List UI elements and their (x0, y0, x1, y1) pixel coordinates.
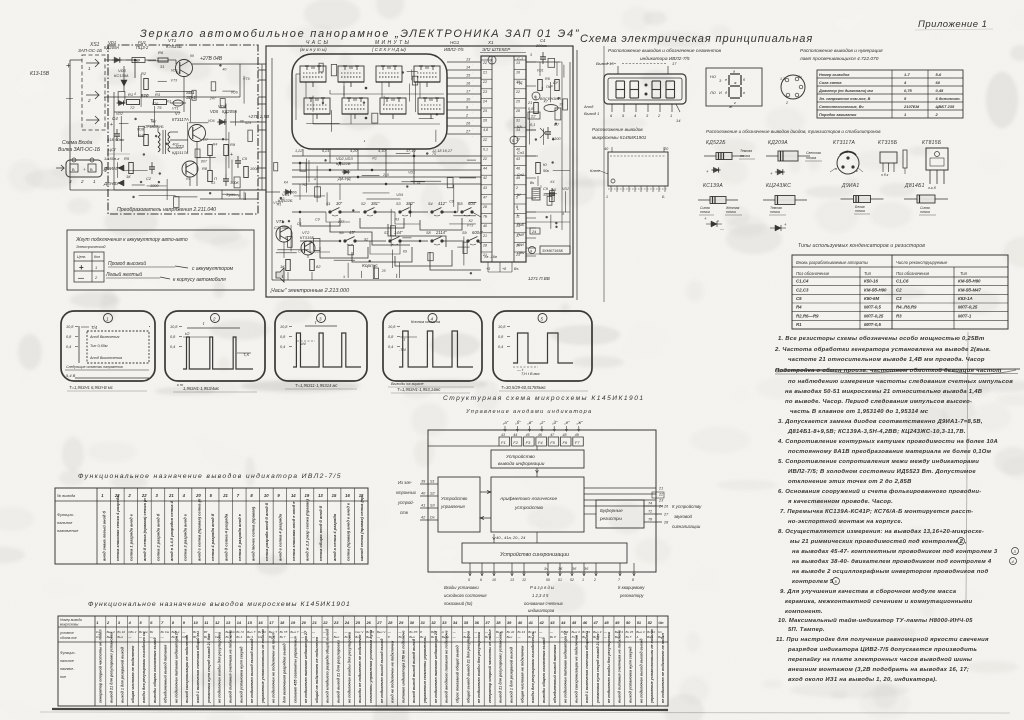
crystal filter (532, 188, 540, 200)
page crease right (966, 332, 968, 600)
resistor R10 (129, 163, 134, 174)
speaker buzzer (276, 268, 284, 282)
circled node 7 (488, 56, 496, 64)
psu-clock link wires (258, 69, 266, 71)
capacitor C5 (237, 156, 239, 161)
crystal ZQ (544, 105, 558, 112)
right inner frame (569, 62, 571, 254)
connector XS2 body (66, 160, 102, 177)
diode VD4 (117, 102, 126, 104)
wire alu-buffer (584, 513, 596, 515)
struct outer box (428, 430, 656, 572)
control input pins (420, 483, 438, 485)
diode KD209A symbol (775, 171, 785, 173)
display leads top (617, 66, 619, 74)
switch row2 wires (300, 241, 481, 244)
switch row1 wires (292, 212, 481, 217)
wire psu mid (170, 139, 188, 141)
diode KD522B symbol (711, 169, 720, 171)
alu right outputs (584, 487, 656, 489)
table2 grid (58, 616, 668, 706)
resistor R3 75 (154, 100, 167, 105)
circled digits in notes (958, 538, 965, 545)
sync unit box (462, 543, 627, 563)
buffer outputs (644, 505, 662, 507)
resistor R8 (208, 171, 213, 182)
right column wires (526, 61, 562, 63)
wire psu-clock links (258, 63, 266, 65)
display leads bottom (611, 104, 613, 112)
wire psu out lines (221, 190, 223, 199)
wire psu bottom bus (114, 189, 258, 191)
resistor R2 clock (310, 260, 315, 271)
resistor R4 (144, 135, 149, 146)
wire bus verticals (299, 184, 301, 200)
waveform box 5 (493, 311, 592, 381)
waveform box 1 (61, 311, 155, 381)
circled node 6 (532, 92, 540, 100)
waveform 5 trace (513, 333, 573, 363)
struct outer left wire (428, 445, 499, 447)
waveform 1 trace (78, 326, 80, 363)
resistor R9 (224, 145, 229, 156)
display HG1 drawing (604, 74, 686, 104)
power supply unit box (108, 45, 258, 214)
alu box (491, 477, 584, 532)
wire collector VT1 to +27V (192, 63, 258, 65)
resistor R6 right (538, 80, 543, 91)
table1 grid (55, 488, 368, 564)
resistor R2 510 (144, 79, 149, 90)
wire psu internal 1 (113, 92, 115, 112)
resistor R7 (208, 145, 213, 156)
capacitor C6 (225, 174, 227, 179)
sheet fold line (603, 46, 605, 302)
lamp base circle (781, 75, 805, 99)
resistor R1 72 (127, 100, 140, 105)
vfd tube outline (292, 54, 447, 149)
waveform box 2 (165, 311, 265, 381)
wire clutter clock lower (366, 198, 400, 200)
wire battery feed (104, 59, 140, 61)
buffer registers box (596, 500, 644, 528)
diode bridge symbol (770, 227, 786, 229)
staircase wires switch rows (300, 218, 340, 226)
clock bottom wires (272, 279, 481, 281)
control unit box (438, 477, 480, 532)
capacitor C2 (151, 162, 153, 167)
strikethrough line note2 (775, 369, 1020, 370)
node box 24 (530, 228, 540, 234)
node box 22 (528, 112, 540, 119)
junction dots bus (299, 162, 301, 164)
output device box (491, 450, 584, 468)
clock unit box (266, 46, 573, 297)
wire clutter tube (363, 102, 365, 104)
wire +27 right (230, 121, 258, 123)
waveform box 4 (383, 311, 482, 381)
sync bottom pins (469, 563, 471, 576)
arrows control-alu (480, 491, 491, 494)
F cell boxes (499, 437, 510, 446)
resistor R1a (158, 58, 168, 62)
table2 bottom heavy line (52, 709, 668, 710)
segment designation box (706, 68, 762, 106)
resistor R11 (244, 167, 249, 178)
switches S1-S5 (329, 211, 331, 213)
vfd grid symbols (300, 81, 326, 83)
vfd internal wires (305, 82, 307, 98)
resistor R1 clock (286, 260, 291, 271)
harness legend box (67, 230, 254, 290)
switches S6-S9 (344, 240, 346, 242)
legend table (74, 252, 104, 282)
lamp parameters table (817, 70, 963, 118)
IC K145IK1901 package (608, 152, 668, 186)
caps resistors table (792, 255, 1008, 329)
resistor R8 right (536, 163, 541, 174)
wire output to alu (536, 468, 538, 477)
wire left riser (70, 189, 266, 191)
circled node 5 (510, 136, 518, 144)
waveform box 3 (275, 311, 367, 381)
zener KS139A symbol (706, 223, 722, 225)
buzzer box (540, 246, 570, 254)
connector X1 strip (481, 56, 526, 262)
wire anode lines to connector (447, 61, 481, 63)
